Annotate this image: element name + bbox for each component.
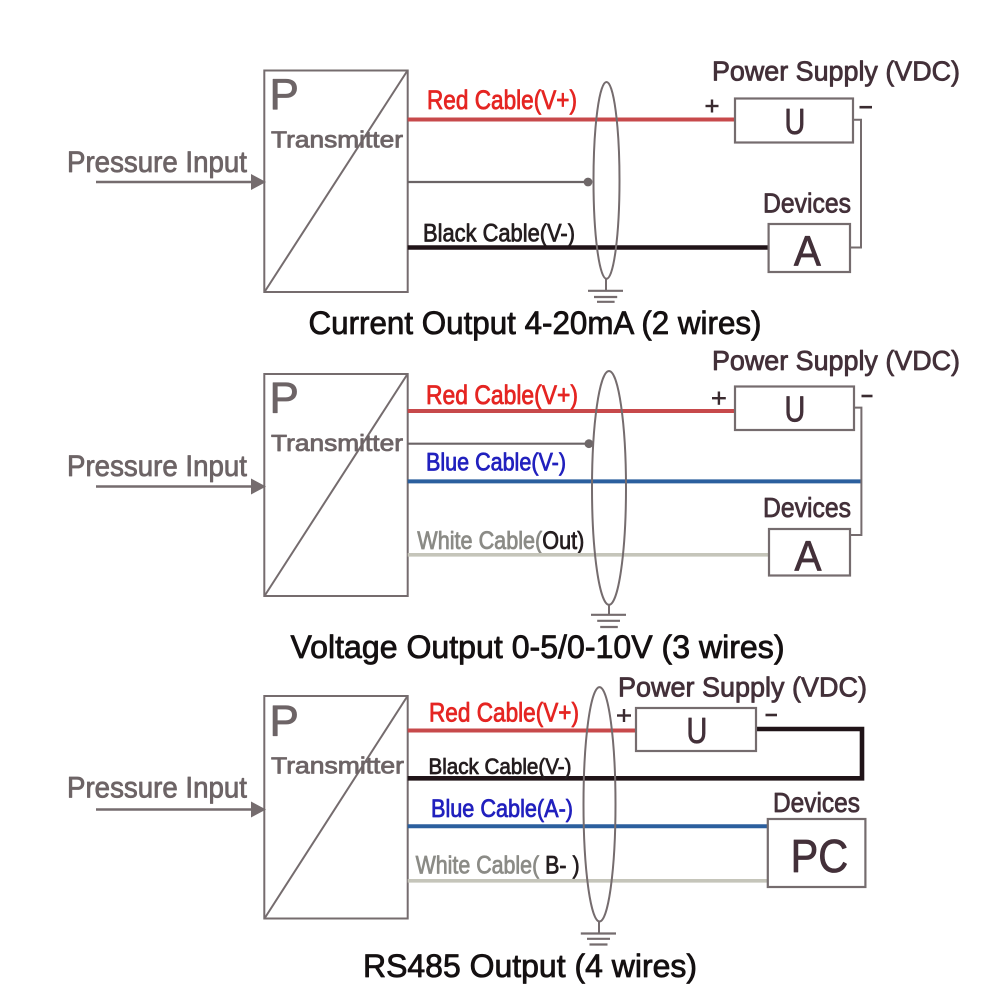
svg-text:P: P — [270, 696, 299, 745]
svg-text:Red Cable(V+): Red Cable(V+) — [426, 380, 578, 410]
svg-text:Red Cable(V+): Red Cable(V+) — [429, 698, 579, 728]
svg-text:Voltage Output 0-5/0-10V (3: Voltage Output 0-5/0-10V (3 wires) — [291, 629, 785, 665]
svg-text:Power Supply (VDC): Power Supply (VDC) — [618, 671, 867, 702]
svg-text:Devices: Devices — [763, 492, 851, 523]
svg-text:U: U — [785, 101, 806, 142]
svg-text:White Cable(Out): White Cable(Out) — [417, 527, 584, 555]
svg-text:P: P — [270, 374, 299, 423]
svg-text:Current Output 4-20mA (2 wire: Current Output 4-20mA (2 wires) — [309, 305, 762, 341]
svg-text:Blue Cable(V-): Blue Cable(V-) — [426, 449, 566, 477]
svg-text:Pressure Input: Pressure Input — [67, 450, 247, 483]
svg-text:P: P — [270, 70, 299, 119]
svg-text:Black Cable(V-): Black Cable(V-) — [429, 754, 572, 779]
svg-text:Power Supply (VDC): Power Supply (VDC) — [712, 345, 960, 376]
svg-text:Power Supply (VDC): Power Supply (VDC) — [712, 56, 960, 87]
svg-text:PC: PC — [791, 831, 848, 883]
svg-text:Blue Cable(A-): Blue Cable(A-) — [431, 795, 573, 823]
svg-text:Pressure Input: Pressure Input — [67, 146, 247, 179]
svg-text:Transmitter: Transmitter — [271, 752, 404, 778]
svg-text:A: A — [795, 531, 822, 579]
svg-text:White Cable( B- ): White Cable( B- ) — [416, 852, 580, 880]
svg-text:RS485 Output (4 wires): RS485 Output (4 wires) — [363, 948, 697, 984]
svg-text:Transmitter: Transmitter — [271, 127, 403, 153]
svg-text:A: A — [794, 226, 821, 274]
svg-text:Black Cable(V-): Black Cable(V-) — [423, 219, 575, 247]
svg-text:Red Cable(V+): Red Cable(V+) — [427, 85, 577, 115]
svg-text:U: U — [687, 710, 708, 751]
svg-text:Transmitter: Transmitter — [271, 430, 403, 456]
svg-text:Devices: Devices — [773, 787, 860, 818]
svg-text:U: U — [785, 388, 806, 429]
svg-text:Devices: Devices — [763, 188, 851, 219]
svg-text:Pressure Input: Pressure Input — [67, 772, 247, 805]
